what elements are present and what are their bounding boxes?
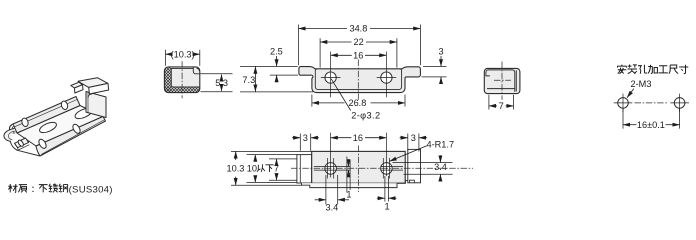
iso apron hole 1 xyxy=(37,138,47,150)
svg-text:10: 10 xyxy=(247,164,257,174)
dimension 3 (front view right) xyxy=(422,47,447,83)
svg-text:2-φ3.2: 2-φ3.2 xyxy=(351,111,380,121)
end view inner hat outline xyxy=(486,70,515,92)
dimension 3 (plan right) xyxy=(400,133,428,152)
mounting-hole centerline xyxy=(635,102,669,104)
dimension 2.5 xyxy=(240,47,298,81)
iso left tab xyxy=(15,138,29,148)
dimension 3 (plan left) xyxy=(292,133,319,151)
dimension 7 (end view) xyxy=(489,95,514,111)
mounting-hole diagram: right hole xyxy=(670,94,689,113)
iso web slot hole 1 xyxy=(38,120,58,134)
section view body xyxy=(164,67,199,93)
plan view left tab xyxy=(297,155,312,183)
svg-text:3.4: 3.4 xyxy=(326,203,339,213)
svg-text:7.3: 7.3 xyxy=(242,75,255,85)
plan view right tab xyxy=(408,149,421,182)
svg-text:16: 16 xyxy=(353,133,363,143)
svg-text:10.3: 10.3 xyxy=(227,164,245,174)
callout 2-phi3.2 xyxy=(331,79,380,121)
plan centerline horizontal xyxy=(291,167,473,169)
channel inner wall lines xyxy=(315,69,401,90)
iso left tab hole xyxy=(17,139,24,147)
dimension 7 (plan left) xyxy=(269,159,297,180)
dimension (10.3) xyxy=(165,49,199,65)
svg-text:3: 3 xyxy=(411,133,416,143)
iso apron lip xyxy=(36,117,106,157)
plan view main body xyxy=(312,151,406,183)
material note text xyxy=(8,184,113,196)
hole left (front view) xyxy=(325,72,336,83)
svg-text:(10.3): (10.3) xyxy=(171,49,195,59)
dimension 26.8 xyxy=(312,95,405,109)
iso left beak curl xyxy=(4,129,14,142)
plan view bottom lip staircase xyxy=(302,183,398,188)
iso web face xyxy=(17,106,103,147)
dimension 16 (front view) xyxy=(331,51,387,98)
label 2-M3 with leader xyxy=(627,79,651,98)
svg-text:3: 3 xyxy=(438,47,443,57)
callout 4-R1.7 xyxy=(390,140,455,162)
plan slot lines right xyxy=(381,158,403,179)
plan view hole right xyxy=(381,163,393,175)
dimension 3.4 (plan right) xyxy=(393,155,453,181)
iso far wall band xyxy=(13,97,80,134)
svg-text:26.8: 26.8 xyxy=(348,98,366,108)
svg-text:22: 22 xyxy=(353,37,363,47)
svg-text:7: 7 xyxy=(274,164,279,174)
svg-text:2-M3: 2-M3 xyxy=(631,79,652,89)
plan view bottom-right step xyxy=(397,181,408,184)
svg-text:16±0.1: 16±0.1 xyxy=(637,120,665,130)
hole right (front view) xyxy=(381,72,392,83)
svg-text:3.4: 3.4 xyxy=(434,162,447,172)
dimension 34.8 xyxy=(299,24,421,66)
dimension 7.3 xyxy=(240,67,313,92)
svg-text:1: 1 xyxy=(384,202,389,212)
iso flange top band xyxy=(78,78,108,88)
dimension 22 xyxy=(320,37,397,67)
end view body xyxy=(484,68,520,93)
section view centerline xyxy=(181,61,183,98)
svg-text:34.8: 34.8 xyxy=(349,24,367,34)
iso web slot hole 2 xyxy=(74,106,94,120)
dimension 1 (right slot) xyxy=(377,176,397,212)
end view centerlines xyxy=(501,62,503,100)
hole crosshair horizontals xyxy=(321,77,341,79)
dimension 16±0.1 xyxy=(623,109,680,130)
front view vertical centerline xyxy=(357,60,359,101)
dimension 10以下 (plan left) xyxy=(247,155,297,183)
iso right tab small xyxy=(71,82,83,88)
plan view hole left xyxy=(325,163,337,175)
plan centerline vertical xyxy=(357,146,359,193)
plan slot lines left xyxy=(314,158,350,179)
dimension 5.3 xyxy=(201,74,233,92)
dimension 10.3 (plan left) xyxy=(227,151,312,185)
svg-text:1: 1 xyxy=(346,189,351,199)
svg-text:5.3: 5.3 xyxy=(215,78,228,88)
iso far wall hole right xyxy=(60,100,68,110)
section view folded-corner notch xyxy=(193,67,199,74)
dimension 16 (plan) xyxy=(331,133,387,178)
svg-text:4-R1.7: 4-R1.7 xyxy=(427,140,455,150)
iso apron hole 2 xyxy=(71,123,81,135)
heading 安装孔加工尺寸 xyxy=(617,64,688,73)
svg-text:(SUS304): (SUS304) xyxy=(69,184,113,195)
dimension 1 (left slot) xyxy=(346,157,351,200)
iso far wall hole left xyxy=(21,117,29,127)
channel front view silhouette xyxy=(299,67,421,93)
iso right flange face xyxy=(86,92,106,118)
iso tab slit curl 2 xyxy=(88,94,92,97)
svg-text:3: 3 xyxy=(303,133,308,143)
dimension 3.4 (below left hole) xyxy=(315,175,349,213)
svg-text:7: 7 xyxy=(499,101,504,111)
iso apron lip inner line xyxy=(42,120,105,154)
svg-text:2.5: 2.5 xyxy=(270,47,283,57)
svg-text:16: 16 xyxy=(353,51,363,61)
end view right double edge xyxy=(515,70,517,91)
iso left end top curl xyxy=(9,124,14,133)
isometric bracket view xyxy=(4,78,109,156)
iso left bottom silhouette xyxy=(10,141,40,156)
mounting-hole diagram: left hole 2-M3 xyxy=(614,94,633,113)
